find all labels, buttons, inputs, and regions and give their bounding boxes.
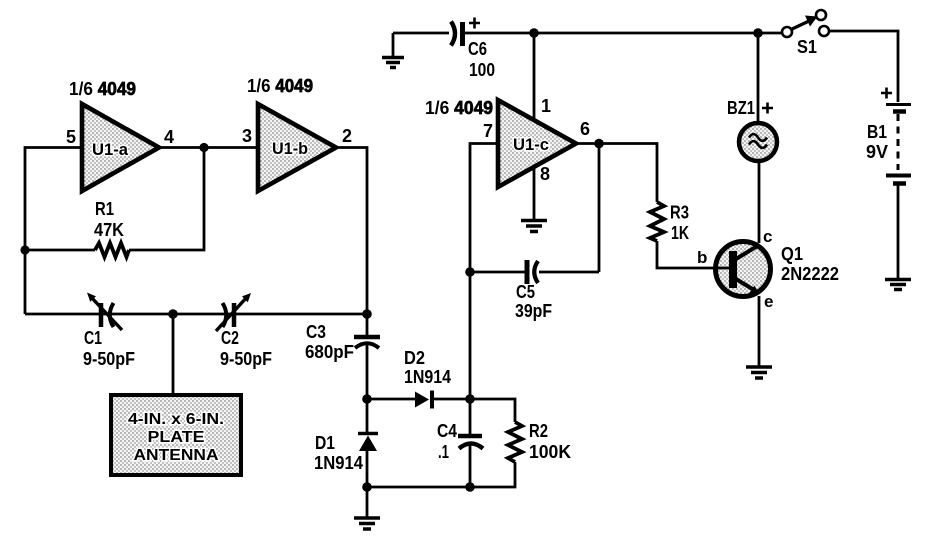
polarity + (B1) <box>881 88 892 99</box>
label B1 <box>867 122 887 142</box>
label C4 <box>437 421 457 441</box>
svg-text:680pF: 680pF <box>305 342 354 362</box>
svg-text:C4: C4 <box>437 421 457 441</box>
ground (U1-c pin 8) <box>521 221 547 232</box>
svg-text:1/6 4049: 1/6 4049 <box>69 79 136 99</box>
svg-text:5: 5 <box>66 127 76 147</box>
resistor R2 <box>508 422 522 462</box>
pin label e <box>764 292 773 311</box>
label C2 value 9-50pF <box>220 349 272 369</box>
label C6 <box>468 39 487 59</box>
node: pin4 junction <box>199 143 208 152</box>
node: pin1 junction <box>529 28 539 38</box>
plate antenna box <box>111 395 241 475</box>
diode D2 <box>415 391 432 409</box>
pin label c <box>763 227 772 246</box>
variable capacitor C1 <box>87 293 122 331</box>
capacitor C6 <box>451 22 463 47</box>
svg-text:1N914: 1N914 <box>404 367 451 387</box>
svg-text:4-IN. x 6-IN.: 4-IN. x 6-IN. <box>128 411 224 428</box>
buzzer BZ1 <box>739 123 777 161</box>
svg-text:1: 1 <box>541 96 551 116</box>
svg-text:1K: 1K <box>671 223 689 243</box>
resistor R1 <box>95 243 129 257</box>
svg-text:C5: C5 <box>516 282 535 302</box>
svg-text:.1: .1 <box>438 442 449 462</box>
node: C4 bottom junction <box>465 482 475 492</box>
svg-text:47K: 47K <box>94 220 124 240</box>
inverter U1-a <box>82 104 159 191</box>
svg-text:b: b <box>697 248 707 267</box>
wire: emitter to ground <box>758 296 761 366</box>
svg-text:9-50pF: 9-50pF <box>220 349 272 369</box>
diode D1 <box>358 399 378 487</box>
resistor R3 <box>650 202 664 241</box>
label C3 value 680pF <box>305 342 354 362</box>
wire: bottom row <box>367 462 515 487</box>
ground (top left) <box>382 58 404 68</box>
label R3 <box>670 203 689 223</box>
polarity + (C6) <box>469 18 480 29</box>
svg-text:U1-b: U1-b <box>272 139 308 158</box>
wire: top rail <box>393 32 782 35</box>
label 1/6 4049 (U1-b) <box>247 76 313 96</box>
svg-text:D2: D2 <box>404 348 425 368</box>
svg-text:U1-c: U1-c <box>513 135 549 154</box>
label C2 <box>221 328 239 348</box>
svg-text:C1: C1 <box>84 328 102 348</box>
label D2 value 1N914 <box>404 367 451 387</box>
wire: U1-a pin4 to U1-b pin3 <box>159 146 258 149</box>
wire: C5 feedback loop <box>470 144 599 273</box>
svg-text:R1: R1 <box>95 199 114 219</box>
label 1/6 4049 (U1-a) <box>69 79 136 99</box>
pin label 5 <box>66 127 76 147</box>
svg-text:Q1: Q1 <box>781 244 803 264</box>
pin label 4 <box>164 127 174 147</box>
label D1 <box>315 433 335 453</box>
wire: pin1 vertical <box>533 33 536 122</box>
svg-text:B1: B1 <box>867 122 887 142</box>
switch S1 <box>782 10 829 37</box>
label C1 <box>84 328 102 348</box>
svg-text:2: 2 <box>342 126 352 146</box>
svg-text:4: 4 <box>164 127 174 147</box>
wire: top-left ground stub <box>392 33 395 57</box>
svg-text:e: e <box>764 292 773 311</box>
capacitor C5 <box>527 260 538 284</box>
svg-text:BZ1: BZ1 <box>727 98 755 118</box>
pin label 3 <box>242 126 252 146</box>
pin label 6 <box>580 119 590 139</box>
node: BZ1 top junction <box>753 28 763 38</box>
svg-text:S1: S1 <box>797 37 817 57</box>
svg-text:C3: C3 <box>306 322 326 342</box>
label R3 value 1K <box>671 223 689 243</box>
svg-text:R3: R3 <box>670 203 689 223</box>
node: bottom left junction <box>362 482 372 492</box>
wire: collector to buzzer <box>758 163 761 243</box>
label D1 value 1N914 <box>314 453 363 473</box>
wire: pin6 output to R3 and Q1 base <box>576 144 714 269</box>
capacitor C4 <box>458 399 483 487</box>
wire: U1-a pin5 input + left feedback vertical <box>25 148 82 315</box>
wire: R1 leads <box>25 148 204 251</box>
label R1 <box>95 199 114 219</box>
label C5 <box>516 282 535 302</box>
svg-text:C6: C6 <box>468 39 487 59</box>
svg-text:ANTENNA: ANTENNA <box>134 447 219 464</box>
label C4 value .1 <box>438 442 449 462</box>
node: D2 output junction <box>465 394 475 404</box>
label R1 value 47K <box>94 220 124 240</box>
wire: antenna stub <box>172 314 175 396</box>
wire: pin8 ground stub <box>533 165 536 219</box>
label Q1 <box>781 244 803 264</box>
pin label 8 <box>540 164 550 184</box>
wire: U1-b output down to oscillator rail <box>336 148 367 315</box>
label S1 <box>797 37 817 57</box>
label R2 value 100K <box>529 442 571 462</box>
svg-text:8: 8 <box>540 164 550 184</box>
variable capacitor C2 <box>216 293 251 331</box>
wire: S1 to battery <box>829 31 898 102</box>
inverter U1-b <box>258 104 336 191</box>
pin label 1 <box>541 96 551 116</box>
svg-text:100: 100 <box>469 60 495 80</box>
svg-text:9V: 9V <box>866 142 888 162</box>
transistor Q1 <box>714 242 771 297</box>
wire: buzzer top <box>757 33 760 123</box>
pin label b <box>697 248 707 267</box>
svg-text:9-50pF: 9-50pF <box>83 349 135 369</box>
node: C3 top junction <box>362 309 372 319</box>
label Q1 value 2N2222 <box>781 264 839 284</box>
svg-text:39pF: 39pF <box>515 301 552 321</box>
svg-text:1/6 4049: 1/6 4049 <box>247 76 313 96</box>
ground (Q1 emitter) <box>746 367 772 378</box>
svg-text:R2: R2 <box>529 421 548 441</box>
wire: battery to ground <box>897 185 900 278</box>
label C5 value 39pF <box>515 301 552 321</box>
polarity + (BZ1) <box>762 103 773 114</box>
svg-text:6: 6 <box>580 119 590 139</box>
label D2 <box>404 348 425 368</box>
node: C5 left junction <box>465 267 475 277</box>
label C1 value 9-50pF <box>83 349 135 369</box>
ground (below D1) <box>354 518 380 529</box>
svg-text:C2: C2 <box>221 328 239 348</box>
capacitor C3 <box>354 314 380 399</box>
svg-text:100K: 100K <box>529 442 571 462</box>
ground (battery) <box>885 280 911 290</box>
label C3 <box>306 322 326 342</box>
pin label 7 <box>483 121 493 141</box>
battery B1 <box>886 105 911 184</box>
svg-text:3: 3 <box>242 126 252 146</box>
pin label 2 <box>342 126 352 146</box>
svg-text:D1: D1 <box>315 433 335 453</box>
svg-text:c: c <box>763 227 772 246</box>
label C6 value 100 <box>469 60 495 80</box>
label 1/6 4049 (U1-c) <box>425 98 493 118</box>
node: D1/D2 junction <box>362 394 372 404</box>
svg-text:2N2222: 2N2222 <box>781 264 839 284</box>
inverter U1-c <box>498 100 576 187</box>
label B1 value 9V <box>866 142 888 162</box>
node: R1 left junction <box>20 245 29 254</box>
svg-text:PLATE: PLATE <box>148 429 205 446</box>
svg-text:1N914: 1N914 <box>314 453 363 473</box>
label BZ1 <box>727 98 755 118</box>
wire: pin7 left + vertical down to D2 node <box>470 144 498 400</box>
svg-text:7: 7 <box>483 121 493 141</box>
node: pin6 junction <box>594 139 604 149</box>
wire: ground stub below D1 <box>366 487 369 517</box>
svg-text:1/6 4049: 1/6 4049 <box>425 98 493 118</box>
wire: D2 row <box>367 399 515 422</box>
label R2 <box>529 421 548 441</box>
svg-text:U1-a: U1-a <box>92 140 129 159</box>
wire: main horizontal rail y=314 <box>25 313 367 316</box>
node: antenna junction <box>168 309 178 319</box>
